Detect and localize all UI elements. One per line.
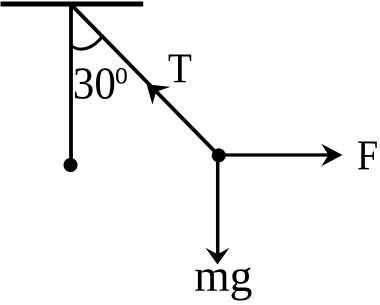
svg-text:30: 30	[73, 59, 116, 109]
wire F force shaft	[219, 153, 330, 156]
arrowhead F	[321, 144, 342, 166]
arrowhead T tension	[147, 84, 171, 104]
svg-text:T: T	[168, 45, 192, 92]
ceiling	[1, 2, 144, 7]
arrowhead mg	[206, 248, 230, 265]
wire vertical reference line	[69, 5, 73, 160]
svg-text:F: F	[357, 132, 378, 179]
wire mg force shaft	[216, 155, 220, 255]
wire string from pivot to mass	[73, 6, 219, 155]
node bob at vertical position	[64, 158, 78, 172]
svg-text:mg: mg	[194, 250, 252, 301]
svg-text:o: o	[115, 56, 128, 92]
node mass point	[212, 148, 226, 162]
angle arc 30 deg	[71, 38, 102, 50]
